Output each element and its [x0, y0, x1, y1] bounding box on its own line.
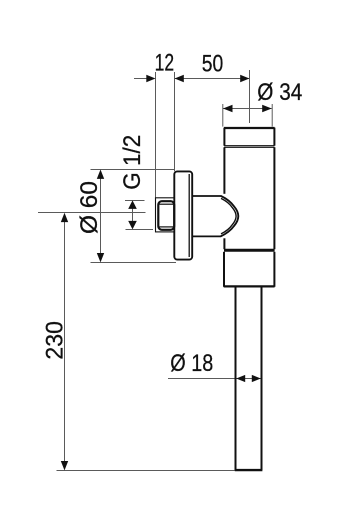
- svg-text:Ø 18: Ø 18: [170, 350, 213, 377]
- svg-text:50: 50: [202, 50, 224, 77]
- svg-text:G 1/2: G 1/2: [119, 135, 146, 190]
- svg-text:Ø 60: Ø 60: [76, 181, 103, 234]
- svg-text:Ø 34: Ø 34: [257, 79, 302, 106]
- svg-text:12: 12: [155, 49, 175, 76]
- svg-text:230: 230: [42, 321, 69, 360]
